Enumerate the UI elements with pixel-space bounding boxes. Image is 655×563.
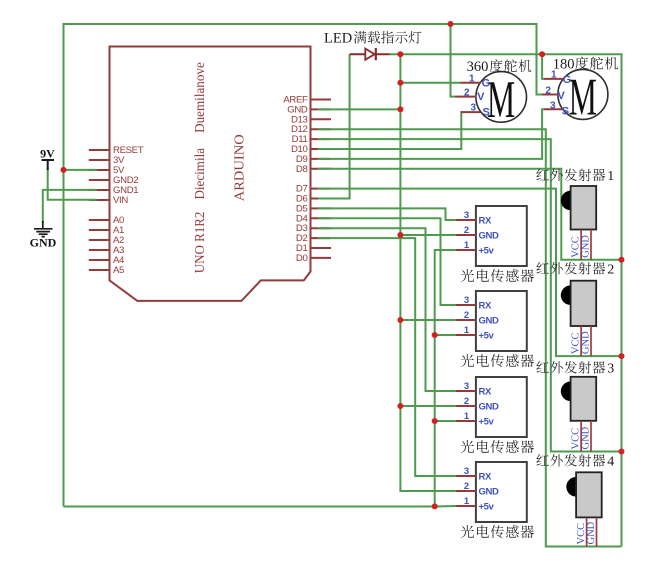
svg-text:V: V xyxy=(558,90,566,102)
svg-text:LED: LED xyxy=(324,31,352,47)
node sensor3 GND xyxy=(397,403,403,409)
label IR transmitter 1 xyxy=(536,169,614,184)
svg-text:D8: D8 xyxy=(296,164,308,175)
wire D12 to IR4 pin row xyxy=(318,129,622,546)
svg-text:RX: RX xyxy=(479,216,492,227)
svg-text:3: 3 xyxy=(464,210,469,221)
wire GND net: diode cathode to right rail down IR column xyxy=(390,54,622,546)
svg-text:2: 2 xyxy=(464,310,469,321)
pin D6 xyxy=(296,194,331,205)
svg-text:UNO R1R2: UNO R1R2 xyxy=(193,212,208,274)
svg-text:M: M xyxy=(569,68,597,126)
svg-text:ARDUINO: ARDUINO xyxy=(233,134,248,201)
wire D5 to sensor1 RX xyxy=(318,208,456,220)
pin D1 xyxy=(296,243,331,254)
pin A1 xyxy=(89,225,124,236)
sensor U2: photoelectric sensor xyxy=(456,206,527,266)
svg-text:1: 1 xyxy=(464,496,470,507)
pin D8 xyxy=(296,164,331,175)
wire 5V bus: left rail, top run to 180-servo V pin xyxy=(64,24,543,507)
svg-text:+5v: +5v xyxy=(479,417,495,428)
svg-text:2: 2 xyxy=(545,86,551,97)
pin A2 xyxy=(89,235,124,246)
svg-text:3: 3 xyxy=(464,295,469,306)
svg-text:3: 3 xyxy=(464,466,469,477)
svg-text:GND: GND xyxy=(581,331,592,354)
wire bottom 5V run to sensor4 +5v xyxy=(64,505,457,508)
node sensor2 GND xyxy=(397,317,403,323)
wire GND tap to 360-servo G pin xyxy=(400,82,461,84)
svg-text:2: 2 xyxy=(464,481,469,492)
node sensor1 GND xyxy=(397,232,403,238)
power source 9V xyxy=(40,147,55,171)
pin A3 xyxy=(89,245,124,256)
svg-text:3: 3 xyxy=(607,362,614,377)
wire top-run tap down to 360-servo V pin xyxy=(451,24,456,97)
svg-text:180: 180 xyxy=(553,57,575,73)
node 5V tap xyxy=(61,167,67,173)
wire D8 to IR1 pin row xyxy=(318,169,622,260)
motor M1: 360-degree servo xyxy=(455,71,527,129)
svg-text:Duemilanove: Duemilanove xyxy=(193,62,208,133)
svg-text:1: 1 xyxy=(464,411,470,422)
svg-text:RX: RX xyxy=(479,387,492,398)
svg-text:3: 3 xyxy=(471,103,477,114)
svg-text:GND: GND xyxy=(479,487,499,498)
wire D10 to 360-servo S pin xyxy=(318,112,463,149)
svg-text:2: 2 xyxy=(464,225,469,236)
node IR2 GND xyxy=(619,353,625,359)
pin 3V xyxy=(89,155,125,166)
wire GND tap to 180-servo G pin xyxy=(542,54,544,79)
label 180 servo xyxy=(553,57,618,73)
node top-run tap xyxy=(448,21,454,27)
pin A0 xyxy=(89,215,124,226)
svg-text:V: V xyxy=(477,91,485,103)
node diode cathode xyxy=(397,51,403,57)
svg-text:A5: A5 xyxy=(113,265,124,276)
svg-text:GND: GND xyxy=(586,521,597,544)
svg-text:1: 1 xyxy=(607,169,614,184)
node 180-servo G tap xyxy=(539,51,545,57)
pin D13 xyxy=(291,114,331,125)
svg-text:D0: D0 xyxy=(296,253,308,264)
pin A4 xyxy=(89,255,125,266)
svg-text:S: S xyxy=(562,105,569,117)
svg-text:G: G xyxy=(482,77,491,89)
svg-text:4: 4 xyxy=(607,455,614,470)
label photoelectric sensor 4 xyxy=(461,525,534,538)
label photoelectric sensor 1 xyxy=(461,269,534,282)
pin GND2 xyxy=(89,175,138,186)
svg-text:3: 3 xyxy=(550,101,556,112)
pin AREF xyxy=(283,95,331,106)
wire D3 to sensor3 RX xyxy=(318,228,456,391)
svg-text:G: G xyxy=(563,74,572,86)
svg-text:+5v: +5v xyxy=(479,502,495,513)
pin D9 xyxy=(296,154,331,165)
IC U1: Arduino Duemilanove board xyxy=(110,47,311,301)
pin D5 xyxy=(296,203,331,214)
diode D1: LED full-load indicator xyxy=(350,48,390,60)
wire 9V source to VIN xyxy=(48,168,97,200)
wire +5v tap sensor2 xyxy=(435,334,456,336)
pin D11 xyxy=(292,134,331,145)
wire D7 to IR2 pin row xyxy=(318,189,622,357)
wire arduino GND pin to GND rail xyxy=(318,108,400,110)
label 360 servo xyxy=(467,59,532,75)
svg-text:1: 1 xyxy=(469,74,475,85)
wire GND tap sensor1 xyxy=(400,234,456,236)
wire 5V pin tap xyxy=(64,169,98,171)
IR transmitter LED3 xyxy=(561,377,596,452)
IR transmitter LED4 xyxy=(566,472,601,546)
wire +5v tap sensor3 xyxy=(435,420,456,422)
wire GND tap sensor2 xyxy=(400,319,456,321)
pin D3 xyxy=(296,223,331,234)
pin D12 xyxy=(291,124,331,135)
svg-text:RX: RX xyxy=(479,301,492,312)
label photoelectric sensor 3 xyxy=(461,440,534,453)
node IR1 GND xyxy=(619,257,625,263)
pin D2 xyxy=(296,233,331,244)
node sensor3 +5v xyxy=(432,418,438,424)
svg-text:2: 2 xyxy=(464,88,470,99)
svg-text:GND: GND xyxy=(479,402,499,413)
svg-text:1: 1 xyxy=(464,325,470,336)
pin D0 xyxy=(296,253,331,264)
node arduino GND xyxy=(397,106,403,112)
node IR3 GND xyxy=(619,449,625,455)
svg-text:GND: GND xyxy=(479,231,499,242)
wire D9 to 180-servo S pin xyxy=(318,109,544,159)
ground GND xyxy=(30,221,57,250)
wire D2 to sensor4 RX xyxy=(318,238,456,476)
svg-text:+5v: +5v xyxy=(479,331,495,342)
label IR transmitter 4 xyxy=(536,454,614,469)
svg-text:RX: RX xyxy=(479,472,492,483)
svg-text:GND: GND xyxy=(30,236,57,250)
wire D4 to sensor2 RX xyxy=(318,218,456,305)
svg-text:M: M xyxy=(487,71,515,129)
svg-text:VIN: VIN xyxy=(113,195,128,206)
sensor U4: photoelectric sensor xyxy=(456,377,527,437)
wire +5v chain linking sensor1..4 pin1 xyxy=(435,250,456,506)
wire D6 to LED anode xyxy=(318,54,350,198)
node sensor4 +5v xyxy=(432,503,438,509)
pin D7 xyxy=(296,184,331,195)
sensor U3: photoelectric sensor xyxy=(456,291,527,351)
svg-text:Diecimila: Diecimila xyxy=(193,147,208,199)
svg-text:3: 3 xyxy=(464,381,469,392)
pin GND xyxy=(287,104,331,115)
svg-text:1: 1 xyxy=(464,240,470,251)
svg-text:GND: GND xyxy=(479,316,499,327)
wire D11 to IR3 pin row xyxy=(318,139,622,451)
pin RESET xyxy=(89,145,144,156)
pin D10 xyxy=(291,144,331,155)
svg-text:S: S xyxy=(483,107,490,119)
IR transmitter LED2 xyxy=(561,281,596,356)
wire GND tap sensor3 xyxy=(400,405,456,407)
pin D4 xyxy=(296,213,331,224)
pin 5V xyxy=(89,165,125,176)
sensor U5: photoelectric sensor xyxy=(456,462,527,522)
svg-text:GND: GND xyxy=(581,235,592,258)
motor M2: 180-degree servo xyxy=(542,68,608,126)
label IR transmitter 3 xyxy=(536,361,614,376)
svg-text:360: 360 xyxy=(467,59,489,75)
svg-text:2: 2 xyxy=(464,396,469,407)
node 360-servo G tap xyxy=(397,80,403,86)
svg-text:GND: GND xyxy=(581,426,592,449)
pin A5 xyxy=(89,265,124,276)
label photoelectric sensor 2 xyxy=(461,354,534,367)
pin VIN xyxy=(89,195,129,206)
svg-text:9V: 9V xyxy=(40,147,55,161)
svg-text:2: 2 xyxy=(607,262,614,277)
wire GND net: center rail down to sensor4 GND xyxy=(400,54,456,491)
label LED indicator xyxy=(324,31,421,47)
label IR transmitter 2 xyxy=(536,262,614,277)
node sensor2 +5v xyxy=(432,332,438,338)
wire GND symbol to GND1 xyxy=(43,190,97,223)
pin GND1 xyxy=(89,185,138,196)
svg-text:+5v: +5v xyxy=(479,246,495,257)
IR transmitter LED1 xyxy=(561,186,596,260)
